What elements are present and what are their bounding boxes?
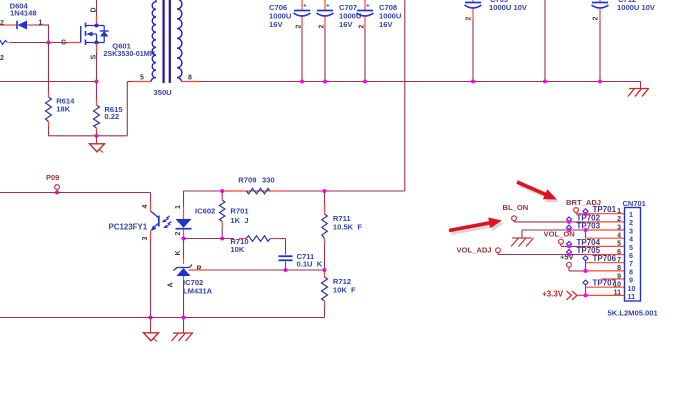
junction: R701 bottom bbox=[220, 237, 224, 241]
annotation arrow 1 (to BRT_ADJ) bbox=[516, 180, 559, 202]
svg-text:P09: P09 bbox=[46, 173, 59, 182]
label IC702 LM431A bbox=[183, 278, 213, 296]
wire: primary return (left) bbox=[0, 81, 97, 83]
svg-text:3: 3 bbox=[617, 224, 621, 231]
svg-text:10K F: 10K F bbox=[333, 285, 356, 294]
pin label R bbox=[197, 266, 202, 273]
label R701 1K J bbox=[230, 207, 249, 225]
test point TP707 bbox=[583, 279, 617, 298]
ground (chassis) at bus right end bbox=[628, 82, 649, 97]
pin label 3 bbox=[142, 236, 149, 240]
wire: K node line bbox=[184, 239, 286, 255]
label C709 1000U 10V (clipped) bbox=[489, 0, 528, 12]
junction: IC602 cathode node bbox=[182, 237, 186, 241]
svg-text:+3.3V: +3.3V bbox=[542, 289, 564, 298]
resistor R614 bbox=[46, 43, 52, 137]
transformer T601 350U bbox=[151, 0, 182, 83]
svg-text:2: 2 bbox=[466, 17, 473, 21]
pin label 5 bbox=[140, 75, 144, 82]
svg-text:+: + bbox=[366, 3, 370, 10]
wire: pin10 bbox=[586, 286, 625, 288]
svg-text:1N4148: 1N4148 bbox=[10, 9, 37, 18]
wire: pin3-pin4 link bbox=[585, 230, 587, 238]
wire: pin4 bbox=[586, 237, 625, 239]
wire: bottom ground line bbox=[0, 317, 325, 319]
wire: pin9 bbox=[601, 278, 625, 280]
net label BRT_ADJ bbox=[566, 198, 601, 214]
connector CN701 bbox=[625, 208, 641, 302]
svg-text:8: 8 bbox=[617, 265, 621, 272]
svg-text:16V: 16V bbox=[269, 20, 283, 29]
capacitor C711 bbox=[279, 256, 293, 270]
label C712 1000U 10V (clipped) bbox=[617, 0, 656, 12]
resistor (partial, left edge) bbox=[0, 40, 8, 62]
svg-text:2: 2 bbox=[0, 55, 4, 62]
pin label K bbox=[175, 250, 182, 255]
svg-text:5: 5 bbox=[617, 241, 621, 248]
svg-text:1: 1 bbox=[617, 208, 621, 215]
junction: R615 bottom bbox=[95, 134, 99, 138]
junction: R711 top bbox=[323, 189, 327, 193]
net label BL_ON bbox=[503, 203, 529, 222]
pin label G bbox=[61, 40, 67, 47]
svg-text:11: 11 bbox=[628, 292, 636, 301]
svg-text:IC602: IC602 bbox=[195, 207, 215, 216]
junction: R701 top bbox=[220, 189, 224, 193]
resistor R709 bbox=[247, 188, 271, 194]
svg-text:2: 2 bbox=[0, 20, 4, 27]
label IC602 bbox=[195, 207, 215, 216]
label D604 1N4148 bbox=[10, 2, 37, 18]
svg-text:2: 2 bbox=[593, 17, 600, 21]
svg-text:8: 8 bbox=[188, 75, 192, 82]
resistor R712 bbox=[322, 270, 328, 318]
svg-text:2: 2 bbox=[617, 216, 621, 223]
svg-text:4: 4 bbox=[142, 204, 149, 208]
junction: C711 at R line bbox=[284, 268, 288, 272]
svg-text:18K: 18K bbox=[56, 104, 70, 113]
wire: R614/R615 bottom node bbox=[49, 82, 152, 136]
svg-text:LM431A: LM431A bbox=[183, 287, 213, 296]
test point TP701 bbox=[583, 205, 617, 216]
wire: transformer pin 8 lead bbox=[182, 81, 201, 83]
node P09 (label, test circle) bbox=[46, 173, 59, 193]
net label VOL_ON bbox=[544, 230, 575, 247]
junction: C707 at bus bbox=[323, 80, 327, 84]
wire: gate net with lead bbox=[9, 25, 81, 43]
annotation arrow 2 (to BL_ON) bbox=[449, 218, 505, 236]
optocoupler PC123FY1 phototransistor bbox=[150, 211, 171, 231]
pin labels 2 and 1 of D604 bbox=[0, 20, 43, 28]
junction: C708 at bus bbox=[363, 80, 367, 84]
capacitor C708 bbox=[357, 0, 374, 82]
svg-text:1000U 10V: 1000U 10V bbox=[489, 3, 528, 12]
wire: pin6 (VOL_ADJ) bbox=[498, 254, 625, 256]
svg-text:6: 6 bbox=[617, 249, 621, 256]
wire: R615 top lead bbox=[96, 82, 98, 106]
junction: gate node bbox=[47, 41, 51, 45]
label R614 18K bbox=[56, 97, 75, 114]
wire: pin5 (VOL_ON) bbox=[561, 245, 625, 247]
label C707 1000U 16V bbox=[339, 3, 362, 29]
svg-text:1: 1 bbox=[175, 205, 182, 209]
label C708 1000U 16V bbox=[379, 3, 402, 29]
net label +5V bbox=[560, 253, 574, 271]
svg-text:R709: R709 bbox=[238, 175, 256, 184]
svg-text:K: K bbox=[175, 250, 182, 255]
capacitor C709 bbox=[465, 0, 482, 82]
svg-text:10K: 10K bbox=[230, 245, 244, 254]
svg-text:10: 10 bbox=[613, 282, 621, 289]
wire: pin8 (+5V) bbox=[569, 270, 625, 272]
junction: P09 on wire bbox=[55, 191, 59, 195]
label R711 10.5K F bbox=[333, 214, 362, 231]
svg-text:+: + bbox=[326, 3, 330, 10]
capacitor C706 bbox=[294, 0, 311, 82]
svg-text:CN701: CN701 bbox=[623, 199, 646, 208]
pin label A bbox=[168, 282, 175, 287]
wire: R709 node line bbox=[184, 191, 405, 219]
wire: cathode net down to IC702 bbox=[183, 239, 185, 265]
resistor R615 bbox=[94, 105, 100, 136]
svg-text:5: 5 bbox=[140, 75, 144, 82]
LED IC602 (optocoupler diode) bbox=[176, 219, 192, 239]
svg-text:4: 4 bbox=[617, 233, 621, 240]
label 350U bbox=[154, 88, 173, 97]
svg-text:TP706: TP706 bbox=[593, 254, 617, 263]
test point TP703 bbox=[566, 221, 600, 232]
ground (chassis) below IC702 bbox=[172, 318, 194, 342]
wire: bus to R709 node bbox=[404, 0, 406, 191]
label PC123FY1 bbox=[109, 222, 148, 231]
svg-text:9: 9 bbox=[617, 273, 621, 280]
svg-text:A: A bbox=[168, 282, 175, 287]
capacitor C712 bbox=[592, 0, 609, 82]
svg-text:D: D bbox=[91, 7, 98, 12]
svg-text:+: + bbox=[303, 3, 307, 10]
wire: secondary output bus bbox=[199, 81, 641, 83]
label C706 1000U 16V bbox=[269, 3, 292, 29]
svg-text:330: 330 bbox=[262, 175, 275, 184]
wire: P09 line to optocoupler collector bbox=[0, 193, 151, 212]
wire: vertical feed at x545 bbox=[544, 0, 546, 82]
svg-text:0.22: 0.22 bbox=[104, 112, 119, 121]
wire: optocoupler emitter to ground line bbox=[150, 231, 152, 318]
pin label 2 (IC602 cathode) bbox=[175, 231, 182, 235]
junction: C712 at bus bbox=[598, 80, 602, 84]
junction: source/R615 node bbox=[95, 80, 99, 84]
wire: pin11 (+3.3V) bbox=[586, 294, 625, 296]
resistor R701 bbox=[220, 191, 225, 239]
wire: pin3 (GND) bbox=[522, 229, 625, 231]
svg-text:10.5K F: 10.5K F bbox=[333, 223, 362, 232]
svg-text:11: 11 bbox=[614, 290, 622, 297]
svg-text:PC123FY1: PC123FY1 bbox=[109, 222, 148, 231]
svg-text:16V: 16V bbox=[379, 20, 393, 29]
net label VOL_ADJ bbox=[457, 246, 501, 255]
svg-text:2: 2 bbox=[296, 25, 303, 29]
wire: pin7 bbox=[586, 262, 625, 264]
junction: R711/R712 node bbox=[323, 268, 327, 272]
junction: C706 at bus bbox=[300, 80, 304, 84]
wire: pin1 (BRT_ADJ) bbox=[576, 213, 625, 215]
pin label 8 bbox=[188, 75, 192, 82]
pin label D bbox=[91, 7, 98, 12]
svg-text:7: 7 bbox=[617, 257, 621, 264]
svg-text:2SK3530-01MR: 2SK3530-01MR bbox=[103, 49, 155, 58]
ground (triangle) below optocoupler bbox=[144, 318, 159, 342]
junction: feed at bus bbox=[543, 80, 547, 84]
wire: pin2 (BL_ON) bbox=[514, 221, 625, 223]
ground (triangle) below R615 bbox=[90, 136, 105, 153]
junction: pin3-pin4 link top bbox=[584, 228, 588, 232]
transistor Q601 (N-MOSFET with body diode) bbox=[81, 23, 109, 46]
svg-text:1K J: 1K J bbox=[230, 216, 248, 225]
label R710 10K bbox=[230, 237, 248, 254]
svg-text:1000U 10V: 1000U 10V bbox=[617, 3, 656, 12]
svg-text:S: S bbox=[91, 54, 98, 59]
label R615 0.22 bbox=[104, 105, 123, 121]
label C711 0.1U K bbox=[297, 252, 323, 269]
svg-text:2: 2 bbox=[359, 25, 366, 29]
test point TP704 bbox=[566, 238, 600, 249]
svg-text:3: 3 bbox=[142, 236, 149, 240]
connector pin numbers 1-11 bbox=[613, 208, 621, 297]
svg-text:TP703: TP703 bbox=[577, 221, 601, 230]
label R712 10K F bbox=[333, 277, 356, 294]
svg-text:1: 1 bbox=[39, 20, 43, 27]
resistor R710 bbox=[246, 236, 270, 242]
wire: Q601 source net bbox=[96, 44, 98, 82]
svg-text:R701: R701 bbox=[230, 207, 249, 216]
svg-text:2: 2 bbox=[175, 231, 182, 235]
svg-text:2: 2 bbox=[319, 25, 326, 29]
label R709 330 bbox=[238, 175, 274, 184]
svg-text:5K.L2M05.001: 5K.L2M05.001 bbox=[608, 309, 659, 318]
test point TP706 bbox=[583, 254, 617, 273]
test point TP702 bbox=[566, 213, 600, 224]
svg-text:0.1U K: 0.1U K bbox=[297, 260, 323, 269]
junction: IC702 anode at bottom line bbox=[182, 316, 186, 320]
wire: Q601 drain net bbox=[96, 0, 98, 24]
svg-text:+5V: +5V bbox=[560, 253, 574, 262]
svg-text:BL_ON: BL_ON bbox=[503, 203, 529, 212]
resistor R711 bbox=[322, 191, 327, 270]
pin label 1 (IC602 anode) bbox=[175, 205, 182, 209]
junction: C709 at bus bbox=[471, 80, 475, 84]
shunt regulator IC702 LM431A bbox=[174, 265, 193, 318]
svg-text:VOL_ADJ: VOL_ADJ bbox=[457, 246, 492, 255]
svg-text:16V: 16V bbox=[339, 20, 353, 29]
pin label 4 bbox=[142, 204, 149, 208]
test point TP705 bbox=[566, 246, 600, 257]
pin label S bbox=[91, 54, 98, 59]
label 5K.L2M05.001 bbox=[608, 309, 659, 318]
label CN701 bbox=[623, 199, 646, 208]
ground (chassis) near VOL_ON bbox=[511, 230, 534, 247]
capacitor C707 bbox=[317, 0, 334, 82]
svg-text:350U: 350U bbox=[154, 88, 173, 97]
junction: emitter at bottom line bbox=[149, 316, 153, 320]
diode D604 1N4148 bbox=[0, 21, 34, 30]
power label +3.3V bbox=[542, 289, 586, 300]
svg-text:R: R bbox=[197, 266, 202, 273]
label Q601 2SK3530-01MR bbox=[103, 41, 155, 58]
wire: R node line bbox=[189, 269, 325, 271]
